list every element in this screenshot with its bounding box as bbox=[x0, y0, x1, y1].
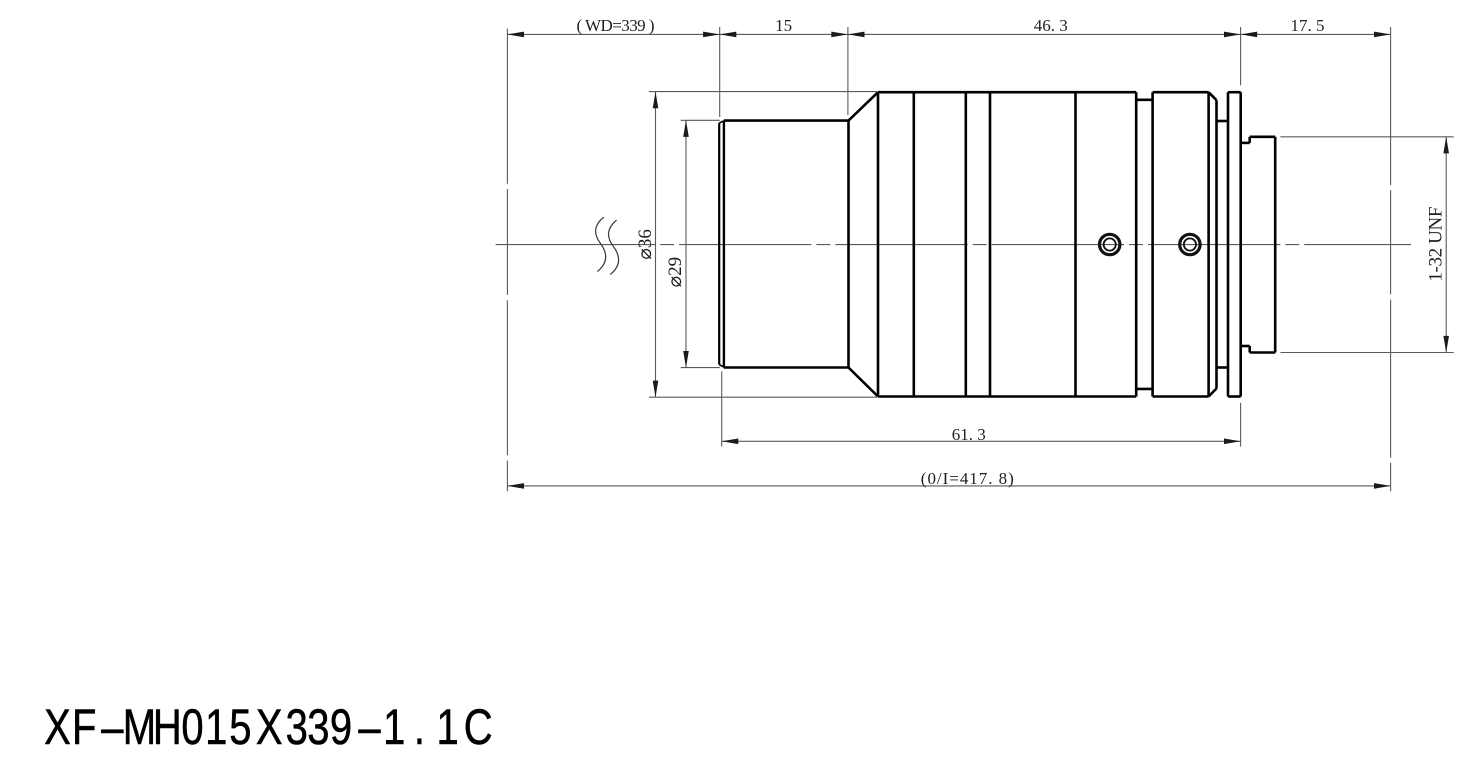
front face top chamfer bbox=[719, 121, 724, 123]
rear block left edge bbox=[1151, 92, 1154, 396]
arrowheads bbox=[507, 32, 1449, 489]
top dimension line y=34.4 bbox=[507, 33, 1390, 35]
UNF arrows bbox=[1443, 137, 1449, 154]
main body top edge bbox=[878, 91, 1136, 94]
61.3 arrows bbox=[722, 439, 739, 445]
step/barrel joint bottom bbox=[1248, 346, 1251, 353]
rear block bottom edge bbox=[1153, 395, 1209, 398]
dia29 arrows bbox=[683, 120, 689, 137]
flange bottom edge bbox=[1228, 395, 1241, 398]
centerline (optical axis) bbox=[496, 244, 1411, 246]
svg-text:(0/I=417. 8): (0/I=417. 8) bbox=[921, 469, 1014, 488]
flange top edge bbox=[1228, 91, 1241, 94]
extension line front face (x=719.7) bbox=[719, 27, 721, 117]
neck bottom edge bbox=[1217, 366, 1229, 369]
groove top edge bbox=[1136, 99, 1152, 102]
O/I arrows bbox=[507, 483, 524, 489]
dia29 dimension bbox=[681, 120, 720, 367]
15 right / 46.3 left bowtie bbox=[831, 32, 848, 38]
svg-text:⌀29: ⌀29 bbox=[665, 257, 686, 287]
46.3 right / 17.5 left bowtie bbox=[1224, 32, 1241, 38]
extension line flange right lower (x=1240.6) bbox=[1240, 403, 1242, 447]
front barrel top edge bbox=[724, 119, 849, 122]
dimension line O/I bbox=[507, 485, 1390, 487]
extension line left (object plane, x=507.4) bbox=[506, 29, 508, 492]
front barrel bottom edge bbox=[724, 366, 849, 369]
chamfer ring right edge bbox=[1215, 100, 1218, 388]
set screw 2 bbox=[1180, 234, 1200, 254]
svg-text:1-32 UNF: 1-32 UNF bbox=[1426, 207, 1447, 282]
neck top edge bbox=[1217, 120, 1229, 123]
ring line 1 bbox=[912, 92, 915, 396]
svg-text:15: 15 bbox=[775, 16, 792, 35]
dia36 dimension bbox=[649, 92, 877, 398]
WD left arrow bbox=[507, 32, 524, 38]
dimension line 61.3 bbox=[722, 440, 1241, 442]
dia36 arrows bbox=[653, 92, 659, 109]
barrel/cone edge bbox=[847, 120, 850, 369]
extension line right (image plane, x=1390.6) bbox=[1390, 27, 1392, 491]
rear block right edge bbox=[1207, 92, 1210, 396]
front face bottom chamfer bbox=[719, 365, 724, 368]
step/barrel joint top bbox=[1248, 137, 1251, 143]
front barrel inner face line bbox=[723, 121, 725, 368]
rear barrel right edge bbox=[1274, 137, 1277, 353]
17.5 right arrow bbox=[1374, 32, 1391, 38]
body right edge at groove bbox=[1135, 92, 1138, 396]
step top edge bbox=[1241, 142, 1250, 145]
chamfer bottom bbox=[1209, 389, 1217, 397]
set screw 1 bbox=[1100, 234, 1120, 254]
svg-text:XF–MH015X339–1.1C: XF–MH015X339–1.1C bbox=[44, 699, 492, 755]
rear barrel bottom edge bbox=[1250, 351, 1276, 354]
extension line flange right upper (x=1240.6) bbox=[1240, 27, 1242, 85]
ring line 2 bbox=[964, 92, 967, 396]
flange left edge bbox=[1227, 92, 1230, 396]
main body bottom edge bbox=[878, 395, 1136, 398]
extension line barrel/cone (x=847.9) bbox=[847, 27, 849, 115]
cone bottom bbox=[849, 368, 879, 397]
cone top bbox=[849, 92, 879, 120]
svg-text:⌀36: ⌀36 bbox=[635, 229, 656, 259]
rear block top edge bbox=[1153, 91, 1209, 94]
flange right edge bbox=[1239, 92, 1242, 396]
svg-text:( WD=339 ): ( WD=339 ) bbox=[577, 16, 655, 35]
ring line 3 bbox=[989, 92, 992, 396]
extension line 61.3 left (x=721.7) bbox=[721, 372, 723, 447]
groove bottom edge bbox=[1136, 388, 1152, 391]
chamfer top bbox=[1209, 92, 1217, 100]
break squiggle (object plane break symbol) bbox=[596, 217, 619, 274]
1-32 UNF dimension bbox=[1280, 137, 1453, 353]
svg-text:17. 5: 17. 5 bbox=[1291, 16, 1325, 35]
main body left edge bbox=[877, 92, 880, 396]
ring line 4 bbox=[1074, 92, 1077, 396]
rear barrel top edge bbox=[1250, 136, 1276, 139]
step bottom edge bbox=[1241, 345, 1250, 348]
front barrel outer face line bbox=[718, 123, 720, 365]
WD right / 15 left bowtie bbox=[703, 32, 720, 38]
svg-text:46. 3: 46. 3 bbox=[1034, 16, 1068, 35]
svg-text:61. 3: 61. 3 bbox=[952, 425, 986, 444]
